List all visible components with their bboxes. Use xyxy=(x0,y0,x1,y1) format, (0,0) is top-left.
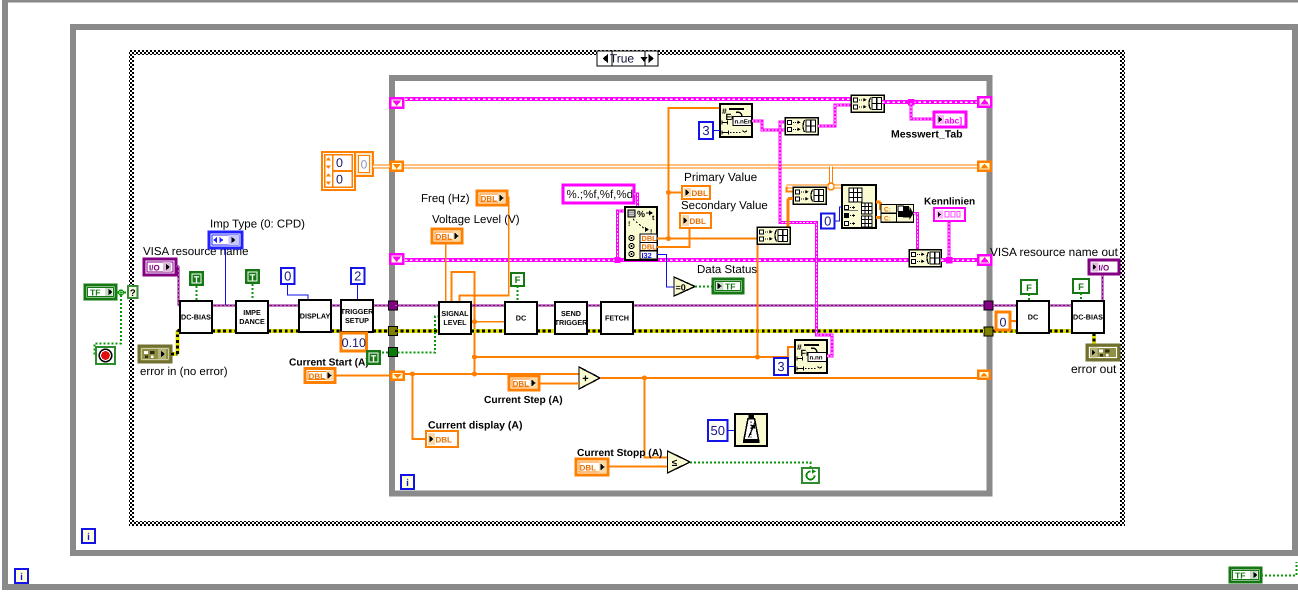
error wire across VI row (left side) xyxy=(212,329,236,333)
shift register right 3 xyxy=(977,254,993,266)
svg-text:DBL: DBL xyxy=(436,435,453,444)
svg-text:0: 0 xyxy=(824,214,831,229)
svg-text:IMPE: IMPE xyxy=(243,308,261,317)
svg-text:error in (no error): error in (no error) xyxy=(140,366,228,378)
build array D xyxy=(793,187,826,204)
junction on boolean wire xyxy=(119,290,124,295)
VISA resource name out indicator xyxy=(1089,260,1119,274)
svg-text:!: ! xyxy=(628,221,630,228)
svg-text:TF: TF xyxy=(1235,571,1246,581)
wire B to right SR1 and Messwert_Tab xyxy=(882,100,977,104)
svg-text:3: 3 xyxy=(777,359,784,374)
svg-text:TRIGGER: TRIGGER xyxy=(341,307,375,316)
svg-text:n.nn: n.nn xyxy=(810,355,823,362)
svg-text:True: True xyxy=(610,52,635,66)
VI SEND TRIGGER xyxy=(555,302,587,334)
Bundle node xyxy=(897,205,914,223)
build array F xyxy=(909,250,941,267)
branch to Kennlinien xyxy=(946,257,953,264)
junction dots on current wire xyxy=(410,371,415,376)
svg-text:≤: ≤ xyxy=(672,458,678,469)
svg-text:DANCE: DANCE xyxy=(239,317,265,326)
current staircase up to SIGNAL LEVEL xyxy=(452,272,475,374)
svg-text:VISA resource name out: VISA resource name out xyxy=(990,245,1119,259)
svg-text:SETUP: SETUP xyxy=(345,316,369,325)
svg-text:Data Status: Data Status xyxy=(697,264,757,276)
VISA wire right section xyxy=(993,305,1017,307)
svg-text:Cː: Cː xyxy=(884,215,891,222)
Index Array VI xyxy=(842,185,876,228)
svg-text:Secondary Value: Secondary Value xyxy=(681,200,768,212)
error out cluster terminal xyxy=(1087,345,1119,360)
Freq wire to SIGNAL LEVEL xyxy=(460,198,509,303)
I32 wire to equal-zero xyxy=(657,255,674,288)
Index Array outputs to Array To Cluster xyxy=(876,201,881,204)
VISA wire across VI row (left side) xyxy=(212,305,236,307)
wire Current Start to shift register xyxy=(335,375,390,377)
Data Status TF indicator xyxy=(713,279,743,293)
svg-text:Imp Type (0: CPD): Imp Type (0: CPD) xyxy=(210,219,305,231)
svg-text:F: F xyxy=(1026,283,1032,294)
svg-text:DBL: DBL xyxy=(692,189,709,198)
VI SIGNAL LEVEL xyxy=(439,302,471,334)
shift register right 2 xyxy=(977,161,992,173)
svg-text:=0: =0 xyxy=(676,283,686,293)
svg-text:%.;%f,%f,%d: %.;%f,%f,%d xyxy=(567,189,633,201)
empty DBL array element constant xyxy=(355,152,373,176)
svg-text:Voltage Level (V): Voltage Level (V) xyxy=(432,214,520,226)
Messwert_Tab string array indicator xyxy=(934,112,966,127)
error wire right section xyxy=(993,329,1017,333)
svg-text:T: T xyxy=(250,272,256,282)
Current Step DBL control xyxy=(509,376,539,390)
svg-text:FETCH: FETCH xyxy=(605,314,629,323)
tunnel error left xyxy=(389,327,398,336)
tunnel boolean left xyxy=(389,348,398,357)
DBL array wire from left SR2 xyxy=(404,165,977,169)
svg-text:DBL: DBL xyxy=(580,463,597,472)
Imp Type enum control xyxy=(209,232,242,248)
inner while loop iteration terminal i xyxy=(401,475,414,489)
svg-text:abc]: abc] xyxy=(945,115,963,125)
svg-text:DBL: DBL xyxy=(481,194,498,203)
case selector tunnel ? xyxy=(128,286,138,298)
VI DISPLAY xyxy=(299,300,331,332)
DBL array constant [0 0] xyxy=(322,152,355,190)
error wire from error in to DC-BIAS xyxy=(171,352,178,356)
svg-text:i: i xyxy=(406,478,409,489)
wire to loop condition xyxy=(690,463,811,469)
formatted current string wire up to build array A xyxy=(780,122,832,356)
svg-text:?: ? xyxy=(130,288,136,299)
VI DC xyxy=(505,302,537,334)
svg-text:0: 0 xyxy=(361,158,368,172)
while loop 2 iteration terminal i xyxy=(82,529,95,543)
svg-text:0: 0 xyxy=(1000,315,1007,329)
svg-text:+: + xyxy=(582,373,588,385)
VISA resource name I/O control xyxy=(144,259,176,275)
svg-text:Current display (A): Current display (A) xyxy=(428,420,523,432)
Wait (ms) function xyxy=(735,414,767,446)
branch current to scan chain xyxy=(472,354,477,359)
add function xyxy=(579,367,600,389)
wire to Data Status xyxy=(695,286,713,288)
tunnel purple left xyxy=(389,301,398,310)
wire add output to right SR4 xyxy=(600,377,977,379)
svg-text:DC: DC xyxy=(516,314,526,323)
svg-text:%: % xyxy=(637,209,645,219)
shift register left 3 (cluster array) xyxy=(389,253,405,265)
svg-text:DC-BIAS: DC-BIAS xyxy=(1073,313,1103,322)
current wire from left SR4 xyxy=(405,373,579,375)
wire format to Scan From String xyxy=(634,194,638,207)
svg-text:Primary Value: Primary Value xyxy=(684,170,758,184)
svg-text:Current Start (A): Current Start (A) xyxy=(289,358,369,369)
svg-text:I/O: I/O xyxy=(1099,263,1110,272)
svg-text:T: T xyxy=(194,274,200,284)
svg-text:n.nEn: n.nEn xyxy=(735,119,752,126)
VI DC-BIAS (right) xyxy=(1072,301,1104,333)
svg-text:2: 2 xyxy=(354,269,361,284)
coercion dot xyxy=(235,305,238,308)
Current Stopp DBL control xyxy=(576,459,608,475)
Voltage wire to SIGNAL LEVEL xyxy=(445,243,447,302)
Secondary Value wire xyxy=(657,229,690,248)
loop condition terminal xyxy=(802,468,819,483)
svg-text:0: 0 xyxy=(336,156,343,170)
while loop 1 stop TF control xyxy=(1230,568,1261,582)
Voltage DBL control xyxy=(432,229,462,243)
svg-text:Current Stopp (A): Current Stopp (A) xyxy=(577,448,662,459)
svg-text:Cː: Cː xyxy=(884,207,891,214)
build array A xyxy=(785,118,818,135)
boolean constant T 2 xyxy=(245,269,260,284)
build array C xyxy=(757,227,790,244)
wire A to build array B xyxy=(818,105,851,126)
VI DC-BIAS xyxy=(180,301,212,333)
svg-text:I/O: I/O xyxy=(149,264,160,273)
Current display DBL indicator xyxy=(426,431,458,447)
cluster wire bundle to build array F xyxy=(914,213,918,250)
svg-text:TF: TF xyxy=(725,282,736,292)
stop button terminal xyxy=(96,347,115,364)
while loop 2 border xyxy=(70,24,76,556)
Primary Value wire + junctions xyxy=(657,238,758,240)
error in cluster terminal xyxy=(139,346,171,362)
wire TF to loop1 condition xyxy=(1261,562,1297,576)
svg-text:DBL: DBL xyxy=(309,372,326,381)
engineering string wire to build array A xyxy=(752,121,785,130)
numeric constant 0.10 xyxy=(352,332,354,334)
svg-text:0.10: 0.10 xyxy=(342,336,366,350)
Secondary Value DBL indicator xyxy=(680,213,711,228)
Imp Type wire to IMPEDANCE xyxy=(226,248,236,306)
wire F to right SR3 xyxy=(941,258,977,262)
svg-text:3: 3 xyxy=(702,123,709,138)
int constant 3 (precision) xyxy=(774,358,788,375)
wire array constant to shift register xyxy=(373,165,390,169)
svg-text:i: i xyxy=(20,572,23,583)
svg-text:DBL: DBL xyxy=(690,217,707,226)
Kennlinien indicator xyxy=(934,208,965,221)
wire to less-equal xyxy=(645,378,669,458)
Scan From String VI xyxy=(625,207,657,260)
boolean constant F (right DC-BIAS) xyxy=(1073,279,1089,293)
svg-text:SIGNAL: SIGNAL xyxy=(441,309,469,318)
VI IMPEDANCE xyxy=(236,301,268,333)
Freq DBL control xyxy=(477,191,507,205)
wire stop button to TF wire xyxy=(95,293,122,356)
svg-text:0: 0 xyxy=(336,173,343,187)
svg-text:i: i xyxy=(87,532,90,543)
error out drop xyxy=(1092,333,1096,346)
orange constant 0 (right) xyxy=(996,312,1010,330)
svg-text:DBL: DBL xyxy=(513,379,530,388)
current wire junction to build array C and Number To Fractional String xyxy=(755,354,760,359)
svg-text:DBL: DBL xyxy=(436,232,453,241)
shift register right 4 xyxy=(977,370,991,381)
svg-text:50: 50 xyxy=(711,423,725,438)
svg-text:DC: DC xyxy=(1028,313,1038,322)
VI DC (right) xyxy=(1017,301,1049,333)
inner while loop border xyxy=(389,75,395,497)
string format constant xyxy=(563,185,634,203)
VISA wire to DC-BIAS xyxy=(176,265,179,267)
svg-text:SEND: SEND xyxy=(561,309,581,318)
svg-text:Messwert_Tab: Messwert_Tab xyxy=(891,129,963,141)
svg-text:I32: I32 xyxy=(642,251,652,260)
svg-text:Freq (Hz): Freq (Hz) xyxy=(421,193,470,205)
error wire across VI row (inside loop) xyxy=(395,329,439,333)
svg-text:Current Step (A): Current Step (A) xyxy=(484,395,563,406)
case selector label True xyxy=(597,51,658,66)
wire TF to case selector xyxy=(116,292,128,294)
shift register left 4 (current, DBL) xyxy=(390,371,405,382)
svg-text:F: F xyxy=(515,275,521,286)
svg-text:error out: error out xyxy=(1071,362,1117,376)
svg-text:TF: TF xyxy=(90,288,101,298)
Current Start DBL control xyxy=(305,369,335,383)
wire Current Step to add xyxy=(539,383,579,385)
case structure border xyxy=(129,50,134,526)
boolean constant F (right DC) xyxy=(1021,280,1037,294)
while loop 1 iteration terminal i xyxy=(15,569,28,583)
boolean wire tunnel to SIGNAL LEVEL xyxy=(398,317,440,353)
svg-text:DC-BIAS: DC-BIAS xyxy=(181,313,211,322)
VI FETCH xyxy=(601,302,633,334)
wire string from SR3 line to Scan From String xyxy=(618,211,626,260)
while loop 1 (outermost) border xyxy=(2,0,8,590)
less-or-equal function xyxy=(668,451,691,473)
string array wire from left SR1 xyxy=(405,97,851,101)
equal zero function xyxy=(674,277,695,296)
int constant 0 xyxy=(281,268,295,284)
svg-text:F: F xyxy=(801,348,807,358)
svg-text:E: E xyxy=(726,112,732,122)
build array B xyxy=(851,95,884,112)
shift register right 1 xyxy=(977,96,993,108)
boolean constant T 3 xyxy=(366,350,381,365)
wire to Current display indicator xyxy=(413,374,427,439)
VI TRIGGER SETUP xyxy=(341,300,373,332)
boolean TF control (loop control) xyxy=(85,285,116,299)
DBL array branch down from SR2 line xyxy=(829,167,833,187)
tunnel purple right xyxy=(984,301,993,310)
svg-text:T: T xyxy=(371,353,377,363)
shift register left 1 (string array) xyxy=(389,97,405,109)
tunnel error right xyxy=(984,327,993,336)
cluster array wire from left SR3 xyxy=(405,258,909,262)
int constant 50 xyxy=(708,420,728,441)
branch to DC input xyxy=(472,319,477,324)
svg-text:TRIGGER: TRIGGER xyxy=(555,318,589,327)
boolean constant F (DC) xyxy=(511,273,524,286)
svg-text:0: 0 xyxy=(284,269,291,284)
int constant 0 (index) xyxy=(821,214,835,229)
svg-text:Kennlinien: Kennlinien xyxy=(924,197,975,208)
wire C output to build array D xyxy=(787,199,790,228)
Number To Engineering String VI xyxy=(720,104,752,137)
VISA wire across VI row (inside loop) xyxy=(395,305,439,307)
boolean constant T 1 xyxy=(189,271,204,286)
svg-text:LEVEL: LEVEL xyxy=(443,318,467,327)
Number To Fractional String VI xyxy=(795,340,827,373)
int constant 3 xyxy=(699,122,713,139)
Array To Cluster nodes xyxy=(881,205,897,214)
svg-text:DISPLAY: DISPLAY xyxy=(300,312,331,321)
svg-text:F: F xyxy=(1078,282,1084,293)
shift register left 2 (DBL array) xyxy=(390,161,405,173)
Primary Value DBL indicator xyxy=(682,186,710,199)
int constant 2 xyxy=(351,268,365,284)
